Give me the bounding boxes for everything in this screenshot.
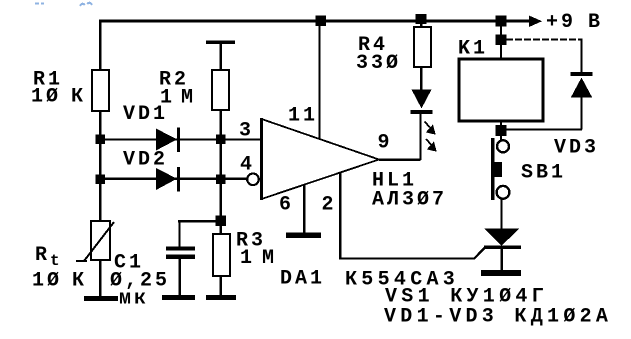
wire: VD1 anode line (to pin 3) [100, 138, 261, 140]
wire: rail to relay top [500, 21, 502, 59]
wire: R3 bottom lead [219, 276, 222, 296]
inverting input bubble (pin 4) [247, 174, 259, 186]
label R1 value [31, 69, 86, 109]
svg-text:K1: K1 [458, 38, 488, 61]
node: rail junction pin 11 [316, 16, 327, 27]
svg-text:М: М [262, 247, 277, 270]
wire: thyristor cathode lead [500, 249, 503, 272]
diode VD2 [156, 167, 179, 192]
svg-text:1Ø: 1Ø [31, 86, 61, 109]
thermistor Rt [76, 221, 114, 261]
power arrow +9 В [529, 11, 603, 34]
pushbutton SB1 [491, 138, 509, 200]
wire: left column from rail to R1 [99, 20, 102, 70]
resistor R4 [414, 27, 431, 67]
svg-text:3: 3 [239, 120, 254, 143]
wire: R3 top lead [219, 225, 221, 234]
wire: R4 to LED [420, 67, 422, 90]
wire: output pin 9 to LED column [379, 114, 421, 160]
label R2 value [159, 69, 196, 110]
label Rt value [32, 244, 87, 293]
svg-text:R: R [35, 244, 50, 267]
wire: C1 bottom lead [178, 258, 181, 296]
wire: VD2 anode line (to pin 4 bubble) [100, 178, 248, 180]
svg-text:SB1: SB1 [521, 162, 566, 185]
pin label 6 [279, 194, 294, 217]
node: junction R2/VD1/pin3 [216, 135, 226, 145]
node: junction relay/VD3 bottom [496, 125, 507, 136]
op-amp DA1 comparator triangle [262, 118, 380, 200]
node: junction R1/VD1 [96, 135, 106, 145]
antenna bar above R2 [206, 42, 235, 70]
svg-text:К: К [72, 270, 87, 293]
svg-text:мк: мк [119, 288, 149, 311]
svg-text:VD3: VD3 [554, 137, 599, 160]
pin label 4 [240, 154, 255, 177]
wire: pin 11 supply [318, 21, 320, 139]
ground under C1 [162, 295, 195, 300]
label K1 [458, 38, 488, 61]
svg-text:VD1-VD3 КД1Ø2А: VD1-VD3 КД1Ø2А [384, 306, 612, 329]
svg-text:1: 1 [160, 87, 175, 110]
wire: node to C1 [178, 221, 220, 247]
label HL1 АЛ307 [372, 170, 447, 212]
svg-text:2: 2 [322, 194, 337, 217]
wire: R2 bottom through junctions to C1/R3 node [219, 110, 221, 221]
wire: +9V top rail [99, 20, 531, 23]
label R3 value [236, 230, 277, 271]
label DA1 [280, 268, 325, 291]
node: junction K1/VD3 top [496, 34, 507, 45]
label R4 value [356, 34, 401, 75]
wire: SB1 to thyristor anode [500, 199, 502, 229]
svg-text:АЛ3Ø7: АЛ3Ø7 [372, 189, 447, 212]
label VD3 [554, 137, 599, 160]
ground under R3 [206, 295, 236, 300]
pin label 9 [378, 132, 393, 155]
label VD1 [123, 103, 168, 126]
svg-text:+9: +9 [546, 11, 576, 34]
wire: VD3 bottom branch [506, 98, 582, 130]
node: junction R1/VD2 [96, 175, 106, 185]
diode VD1 [156, 128, 179, 153]
wire: pin 6 to ground [303, 185, 305, 233]
label C1 value [110, 252, 170, 311]
svg-text:4: 4 [240, 154, 255, 177]
capacitor C1 [166, 246, 195, 259]
svg-text:9: 9 [378, 132, 393, 155]
LED HL1 [411, 90, 433, 115]
svg-text:1: 1 [240, 247, 255, 270]
label SB1 [521, 162, 566, 185]
wire: R1 bottom to Rt top [99, 111, 101, 221]
pin label 3 [239, 120, 254, 143]
svg-text:VD2: VD2 [123, 149, 168, 172]
diode VD3 (free-wheeling) [571, 74, 593, 98]
svg-text:6: 6 [279, 194, 294, 217]
thyristor VS1 [484, 228, 521, 247]
node: rail junction K1 [496, 16, 507, 27]
wire: R4 top lead [420, 21, 422, 27]
wire: pin 2 to thyristor gate [340, 173, 485, 259]
wire: VD3 top branch [506, 39, 582, 72]
pin label 11 [288, 105, 318, 128]
label К554СА3 [345, 269, 459, 292]
ground under Rt [84, 296, 118, 301]
ground under VS1 [481, 270, 521, 276]
resistor R1 [92, 70, 109, 111]
svg-text:К: К [71, 86, 86, 109]
svg-text:11: 11 [288, 105, 318, 128]
svg-text:33Ø: 33Ø [356, 52, 401, 75]
pin label 2 [322, 194, 337, 217]
ground at pin 6 [286, 233, 321, 238]
svg-text:1Ø: 1Ø [32, 270, 62, 293]
resistor R2 [212, 70, 229, 110]
node: junction VD2/pin4 [216, 175, 226, 185]
label VD2 [123, 149, 168, 172]
blue scan remnant marks [35, 3, 92, 6]
label VD1-VD3 type [384, 306, 612, 329]
relay coil K1 box [459, 59, 543, 121]
svg-text:В: В [588, 11, 603, 34]
wire: Rt bottom lead [99, 260, 102, 297]
svg-text:DA1: DA1 [280, 268, 325, 291]
svg-text:М: М [181, 87, 196, 110]
node: rail junction R4 [416, 14, 427, 24]
LED emission arrows [425, 122, 436, 151]
label VS1 type [385, 286, 548, 309]
svg-text:t: t [50, 252, 62, 270]
node: junction C1/R3 [215, 216, 226, 227]
wire: relay bottom lead [500, 121, 502, 140]
resistor R3 [213, 234, 230, 276]
